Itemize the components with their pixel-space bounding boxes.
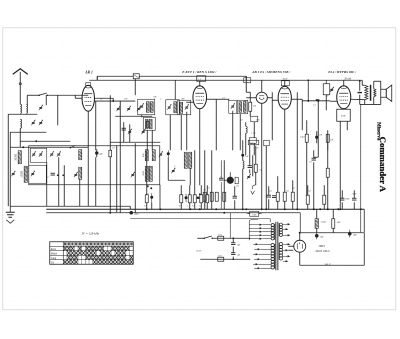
wire V1 cathode xyxy=(87,111,89,147)
band switch frame xyxy=(29,146,160,185)
wire V2 topcap xyxy=(199,81,201,86)
wire rectifier xyxy=(288,232,300,265)
capacitor C39 xyxy=(340,198,344,200)
speaker LS xyxy=(381,85,392,101)
wire xyxy=(174,80,176,99)
capacitor C46 50pF box xyxy=(248,140,259,145)
primary tap feeder xyxy=(249,220,258,241)
svg-text:2: 2 xyxy=(187,205,188,207)
resistor R20 pot tap xyxy=(235,177,238,184)
choke L21 xyxy=(315,219,326,229)
power transformer secondary winding upper xyxy=(279,223,282,236)
trimmer C4 xyxy=(11,171,15,176)
coil L13 10000 xyxy=(20,166,27,182)
wire v drops xyxy=(233,111,253,177)
trimmer C16 xyxy=(171,168,175,173)
wire xyxy=(46,162,48,206)
svg-text:50: 50 xyxy=(326,95,328,97)
svg-text:0,3: 0,3 xyxy=(259,169,261,171)
diode D1 xyxy=(256,92,267,103)
switch position table xyxy=(50,242,134,265)
wire xyxy=(124,122,130,142)
wire xyxy=(307,79,364,101)
capacitor C42 8uF xyxy=(315,233,325,240)
wire xyxy=(95,101,97,150)
svg-text:0,3: 0,3 xyxy=(302,136,305,138)
trimmer C5 on bus xyxy=(133,74,139,79)
wire xyxy=(170,112,187,151)
component box xyxy=(249,138,256,144)
svg-text:300: 300 xyxy=(253,105,256,107)
wire xyxy=(340,121,347,209)
wire xyxy=(269,150,293,209)
wire xyxy=(20,140,70,142)
trimmer C10 xyxy=(128,129,132,134)
wire xyxy=(96,76,98,80)
svg-text:1 mg: 1 mg xyxy=(251,132,255,134)
antenna xyxy=(13,69,28,105)
wire xyxy=(325,95,327,111)
potentiometer P1 volume xyxy=(224,172,234,184)
junction xyxy=(319,208,339,210)
output transformer T3 primary xyxy=(365,85,368,100)
trimmer C29 xyxy=(131,172,135,177)
component dots xyxy=(47,174,64,178)
svg-text:1: 1 xyxy=(220,176,221,178)
svg-text:7500: 7500 xyxy=(252,214,256,216)
coil L17 600 xyxy=(152,150,155,161)
tube V1 AR1 xyxy=(82,83,94,112)
trimmer C32 xyxy=(231,103,235,108)
coil L16 600 xyxy=(143,150,149,161)
ground bus 2 xyxy=(46,213,300,233)
electrolytic C48 1uF xyxy=(241,154,249,158)
svg-text:0,1: 0,1 xyxy=(222,97,225,99)
rectifier V5 xyxy=(294,240,306,252)
label 20mA xyxy=(344,77,351,80)
trimmer C15 xyxy=(185,104,189,109)
wire xyxy=(245,76,247,92)
resistor R9 xyxy=(215,192,218,201)
svg-text:AR 1: AR 1 xyxy=(84,70,93,74)
svg-text:500: 500 xyxy=(153,96,156,98)
capacitor C35 xyxy=(267,195,271,197)
capacitor C40 xyxy=(352,198,356,200)
trimmer C26 xyxy=(57,151,61,156)
trimmer C54 xyxy=(159,151,163,156)
svg-text:20 mA: 20 mA xyxy=(344,77,351,80)
wire xyxy=(246,213,262,214)
secondary taps xyxy=(283,223,291,262)
wire xyxy=(327,130,329,209)
svg-text:0,1: 0,1 xyxy=(309,161,312,163)
wire mains bottom xyxy=(200,258,250,260)
svg-text:2: 2 xyxy=(160,98,161,100)
svg-text:Kurz: Kurz xyxy=(51,248,57,251)
coil L19 2000 xyxy=(149,166,152,181)
wire xyxy=(229,213,231,239)
wire antenna to switch xyxy=(27,94,39,96)
coil L22 xyxy=(243,161,244,169)
table title xyxy=(81,231,99,235)
svg-text:40μF: 40μF xyxy=(134,213,139,215)
component box 0.05 xyxy=(251,116,258,122)
wire xyxy=(205,150,225,209)
svg-text:0,8A: 0,8A xyxy=(218,233,223,236)
tube V2 EKVT1 xyxy=(193,86,207,109)
label small xyxy=(203,189,206,191)
wire xyxy=(307,80,309,101)
svg-text:0,1: 0,1 xyxy=(146,193,149,195)
resistor R12 xyxy=(283,192,286,201)
svg-text:240 V: 240 V xyxy=(324,263,330,266)
capacitor C49 xyxy=(248,166,252,168)
wire V1 grid left xyxy=(75,95,82,98)
svg-text:TA: TA xyxy=(51,261,54,264)
ground symbol xyxy=(6,206,15,223)
wire xyxy=(134,143,136,213)
resistor R14 50 xyxy=(323,80,334,95)
svg-text:2,5kΩ: 2,5kΩ xyxy=(321,221,327,223)
resistor R15 10k xyxy=(326,168,329,177)
trimmer C23 xyxy=(39,151,43,156)
wire xyxy=(10,146,88,148)
svg-text:0,8A: 0,8A xyxy=(218,254,223,257)
resistor R24 xyxy=(187,195,191,208)
capacitor C47 box xyxy=(264,140,270,146)
wire xyxy=(215,99,217,150)
coil L1 antenna xyxy=(20,104,21,113)
wire xyxy=(267,92,272,140)
electrolytic C28 +4uF xyxy=(95,149,103,157)
svg-text:50: 50 xyxy=(256,147,258,149)
tube V4 base box xyxy=(337,109,351,121)
switch contact V xyxy=(251,185,256,195)
tube V4 EL4 xyxy=(337,86,351,109)
svg-text:JF = 128 kHz: JF = 128 kHz xyxy=(81,231,99,235)
resistor R18 xyxy=(332,219,341,229)
electrolytic C56 xyxy=(185,194,188,203)
coil L6 xyxy=(145,119,148,129)
ground bus main xyxy=(10,206,364,232)
mains switch S2 xyxy=(197,236,213,239)
wire xyxy=(308,185,355,209)
resistor R22 10k xyxy=(326,134,329,142)
svg-text:100: 100 xyxy=(319,134,322,136)
resistor R11 xyxy=(276,192,279,201)
coil L3 xyxy=(20,119,21,128)
resistor R6 300k xyxy=(249,102,256,111)
wire xyxy=(301,99,303,130)
wire xyxy=(109,157,111,213)
trimmer C2 xyxy=(31,120,35,125)
wire V2 pins xyxy=(186,99,216,150)
trimmer C22 xyxy=(32,151,36,156)
IF transformer T1 box xyxy=(138,99,155,115)
trimmer C11 xyxy=(141,129,145,134)
svg-text:50pF: 50pF xyxy=(249,143,253,145)
IF transformer T3 box b xyxy=(237,100,248,114)
wire xyxy=(8,114,37,206)
trimmer C1 xyxy=(39,105,43,110)
capacitor C34 xyxy=(233,196,237,198)
trimmer C14 xyxy=(167,104,171,109)
label mains xyxy=(196,249,202,252)
coil L4 xyxy=(146,102,149,113)
switch contact xyxy=(70,145,76,148)
electrolytic C30 40uF xyxy=(129,211,139,215)
svg-text:0,05: 0,05 xyxy=(256,119,260,121)
trimmer C36 xyxy=(330,87,334,92)
wire diode xyxy=(246,80,262,209)
svg-text:EL4 / HYFRS 90L /: EL4 / HYFRS 90L / xyxy=(327,70,357,74)
svg-text:0,3: 0,3 xyxy=(240,119,243,121)
electrolytic C55 xyxy=(167,150,170,157)
svg-text:300: 300 xyxy=(181,98,184,100)
wire box edge drop xyxy=(159,185,161,210)
wire xyxy=(232,237,234,260)
wire xyxy=(134,79,136,96)
resistor R1 xyxy=(146,121,149,127)
wire top bus 1 xyxy=(97,76,246,80)
capacitor C31 box xyxy=(244,78,251,83)
svg-text:p: p xyxy=(173,165,175,167)
coil L23 xyxy=(239,102,242,113)
tube V3 AB1 xyxy=(278,86,291,109)
wire xyxy=(307,120,328,195)
capacitor C53 01 on line xyxy=(313,99,319,106)
wire xyxy=(317,101,319,157)
IF transformer T1b box xyxy=(143,117,155,130)
power transformer core xyxy=(276,222,278,271)
svg-text:61nF: 61nF xyxy=(283,77,289,80)
svg-text:10k: 10k xyxy=(330,139,333,141)
svg-text:3600: 3600 xyxy=(143,170,145,176)
wire xyxy=(234,186,236,209)
wire xyxy=(58,157,60,206)
coil L7 xyxy=(149,119,152,129)
label AR1 xyxy=(84,70,93,74)
svg-text:0,1: 0,1 xyxy=(112,147,115,149)
svg-text:1805: 1805 xyxy=(318,244,325,248)
ground bus 3 xyxy=(130,219,270,223)
wire xyxy=(27,95,46,105)
resistor R16 xyxy=(306,195,309,204)
wire h xyxy=(302,100,330,102)
coil L12 30000 xyxy=(14,151,21,164)
capacitor C38 0.1 xyxy=(309,158,316,163)
svg-text:1kΩ: 1kΩ xyxy=(337,222,341,224)
IF transformer T3 box a xyxy=(229,101,237,114)
svg-text:E KVT 1 / REN S 1284 /: E KVT 1 / REN S 1284 / xyxy=(181,70,217,74)
svg-text:300: 300 xyxy=(243,100,246,102)
trimmer C50 xyxy=(247,174,251,179)
power transformer primary winding lower xyxy=(271,244,275,269)
wire xyxy=(10,128,46,147)
fuse F2 xyxy=(218,254,224,261)
wire V3 pins xyxy=(272,99,302,150)
IF transformer T2 box xyxy=(166,100,180,115)
resistor R26 xyxy=(199,195,203,208)
resistor R27 xyxy=(205,195,209,208)
capacitor C44 2uF xyxy=(231,243,241,247)
svg-text:1: 1 xyxy=(205,205,206,207)
wire xyxy=(147,130,152,150)
wire xyxy=(317,209,334,233)
coil L14 1000 xyxy=(79,150,82,160)
capacitor C43 8uF xyxy=(348,230,358,238)
resistor R25 xyxy=(192,195,196,208)
svg-text:0,5: 0,5 xyxy=(236,185,239,187)
wire xyxy=(243,140,267,209)
label AB1 xyxy=(251,70,291,74)
value labels xyxy=(100,95,356,200)
wire V3 topcap xyxy=(284,80,286,86)
capacitor C51 xyxy=(272,196,276,198)
primary fan taps upper xyxy=(249,224,271,240)
resistor R23 xyxy=(179,195,183,208)
wire xyxy=(141,115,143,118)
power transformer primary winding upper xyxy=(271,224,275,240)
trimmer C7 xyxy=(127,106,131,111)
svg-text:0,1: 0,1 xyxy=(192,205,194,207)
capacitor C13 grid box xyxy=(197,76,206,82)
wire xyxy=(168,157,185,180)
resistor R19 03 xyxy=(254,164,261,172)
electrolytic C52 100uF xyxy=(315,134,322,139)
svg-text:10000: 10000 xyxy=(20,170,23,177)
band switch inner box 1 xyxy=(30,148,47,162)
fuse F1 xyxy=(218,233,224,240)
band switch inner box 2 xyxy=(29,165,47,183)
svg-text:Lang: Lang xyxy=(51,257,57,260)
electrolytic C20 xyxy=(150,193,153,202)
junction dots switch xyxy=(147,185,153,189)
wire B+ right box xyxy=(299,232,365,266)
svg-text:/ RGN 1064 /: / RGN 1064 / xyxy=(314,249,332,253)
coil L9 xyxy=(180,102,183,113)
wire h xyxy=(94,100,135,102)
wire xyxy=(95,157,97,206)
small cap xyxy=(51,173,55,175)
capacitor C41 tone xyxy=(358,92,362,93)
svg-text:0,1: 0,1 xyxy=(269,190,272,192)
wire xyxy=(94,98,114,102)
wire xyxy=(110,142,160,212)
wire xyxy=(216,92,250,102)
trimmer C12 xyxy=(140,103,144,108)
brand text Commander A xyxy=(378,137,388,193)
svg-text:50: 50 xyxy=(179,205,181,207)
wire top bus 2 B+ xyxy=(89,79,362,81)
svg-text:0,1: 0,1 xyxy=(144,205,146,207)
junction dots bus xyxy=(109,193,341,213)
component box 7500 xyxy=(250,211,259,216)
resistor R5 0.1 xyxy=(109,150,112,157)
resistor R21 03W xyxy=(300,134,308,142)
trimmer C25 xyxy=(50,151,54,156)
wire switch to grid xyxy=(47,95,88,125)
wire xyxy=(343,80,345,86)
trimmer C27 xyxy=(74,172,78,177)
oscillator coil L11 xyxy=(189,152,192,168)
wire xyxy=(314,150,319,209)
wire xyxy=(63,165,65,206)
svg-text:Mittel: Mittel xyxy=(51,252,58,255)
wire speaker loop xyxy=(374,81,381,104)
wire mains top xyxy=(212,237,250,239)
coil L2 xyxy=(26,104,27,113)
svg-text:5000: 5000 xyxy=(345,198,349,200)
trimmer C6 xyxy=(116,106,120,111)
wire xyxy=(240,111,254,155)
trimmer C3 xyxy=(39,120,43,125)
resistor R8 xyxy=(210,192,213,201)
brand text Minerva xyxy=(375,122,380,141)
trimmer C24 xyxy=(31,171,35,176)
power transformer secondary winding lower xyxy=(279,243,283,260)
oscillator coil L10 xyxy=(184,152,187,168)
primary taps lower xyxy=(253,243,271,269)
wire h2 xyxy=(115,115,152,117)
label 240V xyxy=(324,263,330,266)
resistor R7 xyxy=(203,192,206,201)
svg-text:0,1: 0,1 xyxy=(207,187,210,189)
IF transformer T2b box xyxy=(178,100,191,115)
coil L8 xyxy=(174,102,177,113)
resistor R10 xyxy=(223,192,226,201)
wire xyxy=(119,150,121,213)
svg-text:30000: 30000 xyxy=(14,153,17,160)
label EL4 xyxy=(327,70,357,74)
resistor R17 xyxy=(323,195,326,204)
svg-text:0,3: 0,3 xyxy=(308,190,311,192)
svg-text:4 ZW: 4 ZW xyxy=(341,114,346,117)
svg-text:50: 50 xyxy=(100,98,102,100)
wire xyxy=(87,147,89,206)
wire xyxy=(110,95,120,150)
coil L18 3600 xyxy=(143,166,149,181)
electrolytic C57 xyxy=(197,196,200,199)
switch S1 antenna xyxy=(38,93,48,96)
svg-text:100: 100 xyxy=(124,98,127,100)
svg-text:5000: 5000 xyxy=(352,193,356,195)
wire xyxy=(360,85,375,104)
svg-text:0,1: 0,1 xyxy=(203,189,206,191)
svg-text:AB 1 E4 / SIEMENS 72B /: AB 1 E4 / SIEMENS 72B / xyxy=(251,70,291,74)
wire xyxy=(296,92,298,209)
coil L15 13000 xyxy=(79,167,82,179)
capacitor C33 box 0.1 xyxy=(281,77,289,86)
wire left drop xyxy=(9,132,11,206)
coil L5 xyxy=(150,102,153,113)
svg-text:0,5: 0,5 xyxy=(286,190,289,192)
coil L24 xyxy=(244,102,247,113)
resistor R2 xyxy=(144,195,148,208)
trimmer C8 xyxy=(137,106,141,111)
wire xyxy=(147,150,208,209)
wire xyxy=(359,80,362,232)
label EKVT1 xyxy=(181,70,217,74)
resistor R13 xyxy=(291,192,294,201)
coil L20 xyxy=(246,126,247,133)
capacitor C58 xyxy=(219,160,223,209)
label rectifier xyxy=(314,244,332,253)
svg-text:0,3: 0,3 xyxy=(292,187,295,189)
output transformer T3 core xyxy=(370,85,372,101)
output transformer T3 secondary xyxy=(374,89,376,97)
capacitor C9 xyxy=(122,128,126,130)
